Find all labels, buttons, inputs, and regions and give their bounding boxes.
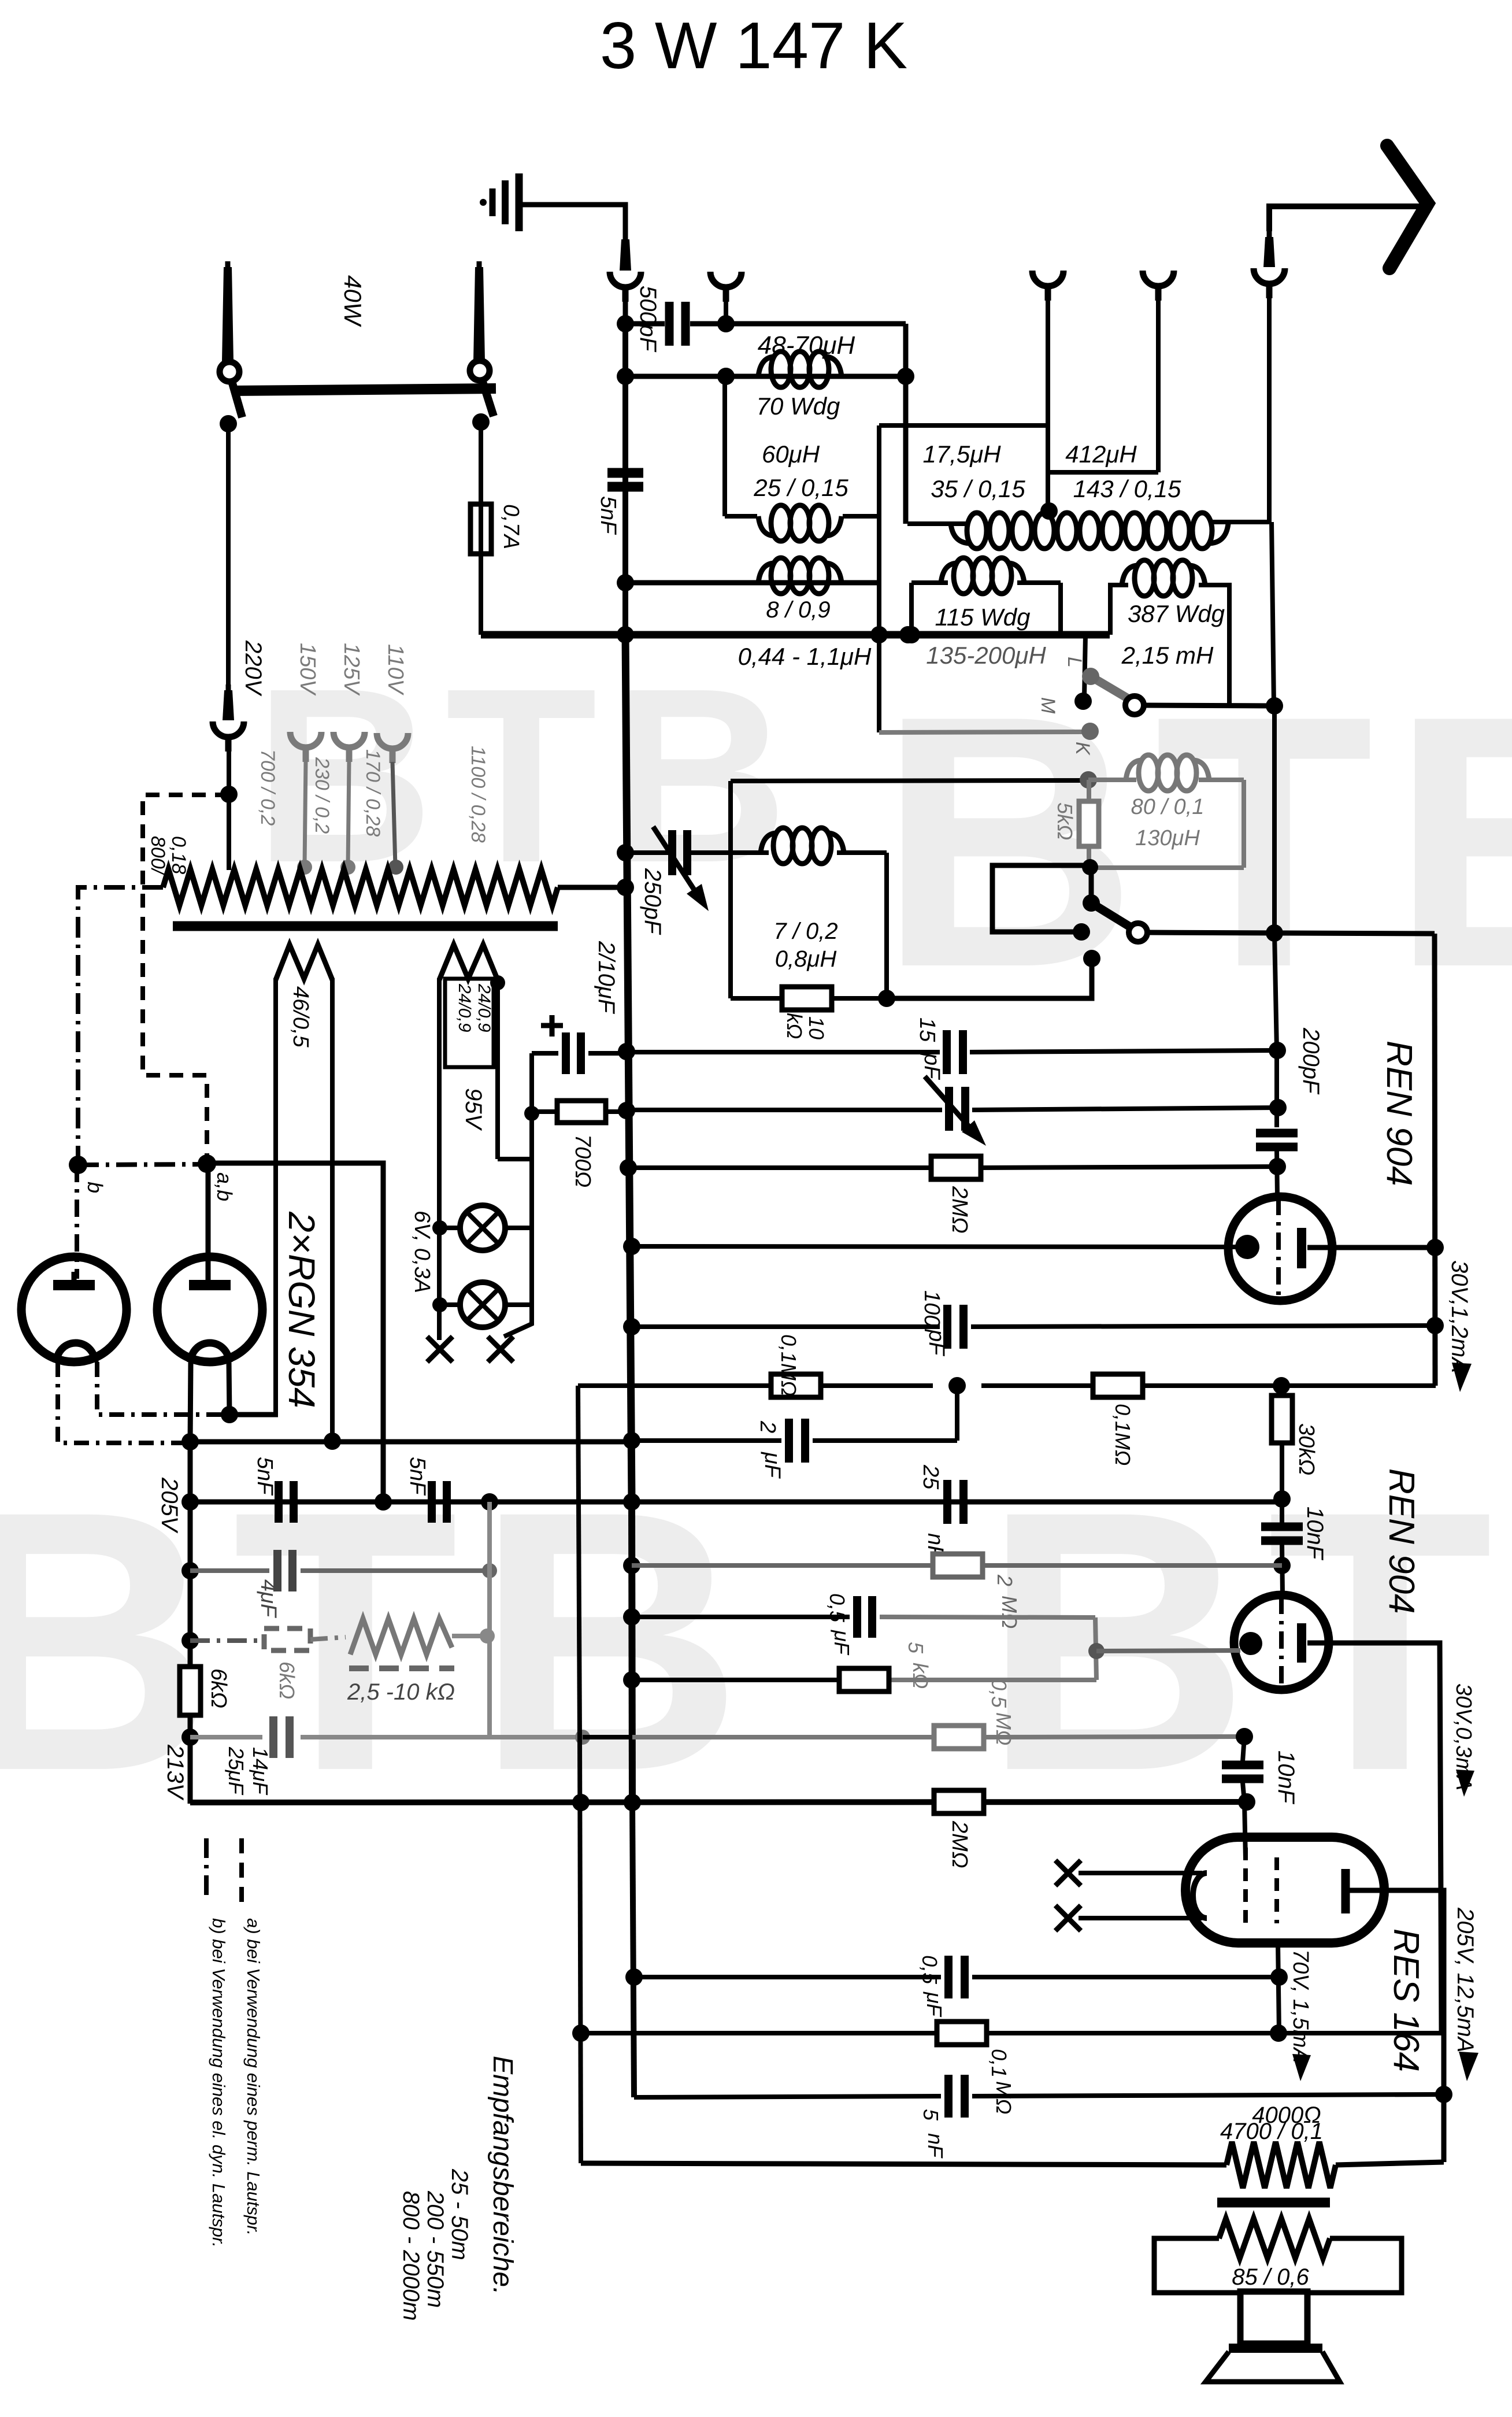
label 10nF a: [1302, 1507, 1328, 1561]
poti underline dashed: [349, 1665, 454, 1671]
lamp 2: [460, 1282, 505, 1327]
svg-text:4700 / 0,1: 4700 / 0,1: [1220, 2119, 1323, 2144]
wire gray box right side: [1242, 780, 1246, 868]
label 150V: [295, 643, 320, 696]
wire tap 125V: [348, 761, 349, 866]
resistor 30k: [1272, 1396, 1292, 1443]
svg-text:115 Wdg: 115 Wdg: [935, 604, 1031, 631]
socket fork A4: [1143, 271, 1174, 301]
node x329 gray: [181, 1728, 199, 1746]
capacitor 15pF: [947, 1030, 963, 1074]
wire gray box top right: [1199, 778, 1244, 782]
contact S3 left: [220, 415, 237, 432]
wire y3517 line: [581, 2031, 1441, 2035]
resistor 0,1M c: [937, 2022, 987, 2045]
winding 46/0,5 zigzag: [276, 945, 332, 980]
label 35/0,15: [931, 475, 1025, 502]
svg-text:5nF: 5nF: [596, 496, 620, 535]
wire A5 down: [1267, 297, 1272, 522]
svg-text:M: M: [1037, 697, 1059, 714]
svg-text:2/10μF: 2/10μF: [594, 941, 619, 1015]
label 100pF: [920, 1290, 948, 1356]
capacitor 5nF on V1: [607, 473, 643, 487]
label 0,7A: [499, 504, 523, 549]
plug pin 220V: [223, 684, 234, 720]
capacitor 100pF: [947, 1305, 963, 1349]
label 25/0,15: [753, 474, 848, 501]
node A1 y560: [617, 315, 634, 332]
label 700: [570, 1134, 595, 1187]
svg-text:40W: 40W: [339, 275, 366, 327]
switch S3 lever right: [481, 378, 494, 416]
label 10 kOhm: [783, 1013, 828, 1039]
svg-text:0,8μH: 0,8μH: [775, 946, 837, 972]
svg-text:0,5: 0,5: [918, 1955, 942, 1985]
wire y1820 line: [627, 1050, 1277, 1052]
wire M branch: [1084, 635, 1085, 697]
wire tube2 fil right leg: [229, 1362, 229, 1415]
wire S2 output: [1147, 932, 1435, 934]
wire RES cathode tap: [1278, 1943, 1279, 2033]
label 85/0,6: [1232, 2264, 1309, 2290]
dashed 800 tap path: [143, 795, 229, 1163]
capacitor 0,5uF a: [857, 1596, 872, 1638]
coil L5 115Wdg: [941, 558, 1024, 594]
resistor 2M gray: [933, 1554, 983, 1577]
node tap 110V: [388, 860, 403, 875]
label 70V,1,5mA: [1288, 1949, 1313, 2081]
label 70 Wdg: [757, 393, 840, 420]
wire lamp right rail: [529, 1053, 534, 1305]
svg-text:85 / 0,6: 85 / 0,6: [1232, 2264, 1309, 2290]
plug pin A5: [1263, 231, 1275, 267]
label 60uH: [762, 441, 820, 468]
label 25nF: [918, 1464, 947, 1560]
wire 10nF chain: [1243, 1737, 1246, 1859]
label 80/0,1: [1131, 795, 1205, 819]
wire x1005 vertical: [578, 1386, 581, 2163]
wire y1008 row: [625, 580, 879, 586]
wire gray y3005: [190, 1735, 583, 1739]
wire ground to A1: [519, 205, 625, 234]
svg-text:0,44 - 1,1μH: 0,44 - 1,1μH: [738, 643, 872, 670]
legend dash sample a: [239, 1838, 244, 1902]
svg-text:kΩ: kΩ: [909, 1663, 932, 1689]
arrow through 250pF: [653, 827, 709, 911]
label 5nF b: [405, 1457, 429, 1496]
svg-text:24/0,9: 24/0,9: [455, 983, 474, 1032]
wire x2210 upper: [1274, 706, 1277, 1127]
label K: [1072, 742, 1094, 756]
node V1 y2797: [623, 1608, 640, 1626]
ground symbol: [480, 173, 519, 231]
label 2uF: [755, 1420, 784, 1479]
label 130uH: [1135, 826, 1200, 850]
label range LW: [398, 2191, 424, 2321]
terminal X fil 1: [1055, 1860, 1081, 1886]
dash-dot b wire top: [78, 887, 163, 1163]
label L: [1063, 657, 1085, 668]
node bus V1b: [624, 1794, 641, 1811]
node bus x2157: [1238, 1793, 1255, 1811]
wire y2906 line: [632, 1678, 1096, 1682]
node bus x1005: [572, 1794, 590, 1811]
dash-dot field line: [190, 1638, 257, 1643]
label 250pF: [640, 868, 665, 935]
svg-text:MΩ: MΩ: [998, 1596, 1021, 1628]
winding rail left x477: [273, 978, 278, 1415]
node tap y3517: [1270, 2024, 1287, 2042]
wire fuse to bus: [479, 554, 483, 635]
svg-text:0,5: 0,5: [825, 1593, 849, 1623]
resistor 6k: [180, 1667, 201, 1715]
output secondary zigzag: [1219, 2219, 1330, 2258]
tube RES164: [1185, 1837, 1384, 1943]
svg-text:μF: μF: [830, 1630, 854, 1656]
svg-text:95V: 95V: [461, 1088, 486, 1131]
svg-text:2×RGN 354: 2×RGN 354: [281, 1211, 323, 1408]
wire grid line REN II: [1096, 1650, 1240, 1651]
terminal X lamp right: [488, 1337, 513, 1362]
wire 115wdg left: [909, 583, 914, 635]
switch S3 lever left: [231, 379, 242, 417]
tube V1 RGN354 left: [21, 1257, 127, 1362]
svg-text:7 / 0,2: 7 / 0,2: [773, 919, 837, 944]
node bus x1571: [899, 626, 917, 643]
svg-text:150V: 150V: [295, 643, 320, 696]
wire x329 down: [188, 1442, 193, 1804]
svg-text:25μF: 25μF: [224, 1746, 248, 1796]
svg-text:pF: pF: [924, 1329, 948, 1356]
wire 387wdg left: [1110, 585, 1128, 635]
svg-text:6kΩ: 6kΩ: [206, 1668, 231, 1708]
svg-text:K: K: [1072, 742, 1094, 756]
svg-text:10: 10: [805, 1016, 828, 1039]
svg-text:5kΩ: 5kΩ: [1053, 802, 1077, 840]
wire fil to winding: [229, 1412, 278, 1417]
svg-text:0,1MΩ: 0,1MΩ: [777, 1334, 801, 1396]
lamp 1: [460, 1205, 505, 1250]
label 800/0,18: [147, 836, 190, 876]
wire tap 150V: [305, 761, 306, 866]
wire long coil right: [1213, 522, 1269, 524]
switch S2 pivot: [1129, 923, 1147, 942]
svg-text:125V: 125V: [339, 643, 364, 696]
coil L4 17,5uH 35/0,15 and 412uH 143/0,15: [951, 513, 1228, 549]
node grid cap: [1269, 1158, 1286, 1175]
coil L6 387Wdg: [1122, 560, 1205, 596]
wire RES anode: [1349, 1890, 1444, 2094]
resistor 0,1M b: [1093, 1374, 1143, 1397]
svg-text:200pF: 200pF: [1298, 1027, 1324, 1095]
node fil right: [221, 1406, 238, 1423]
svg-text:6V, 0,3A: 6V, 0,3A: [410, 1211, 434, 1293]
switch S1 lever contact: [1082, 668, 1099, 685]
svg-text:70V, 1,5mA: 70V, 1,5mA: [1288, 1949, 1313, 2063]
svg-text:pF: pF: [920, 1053, 944, 1080]
label 0,1M c: [987, 2049, 1016, 2114]
node tap 125V: [340, 860, 355, 875]
wire 200pF to grid: [1277, 1150, 1277, 1197]
node V1 y2708: [623, 1557, 640, 1574]
svg-text:10nF: 10nF: [1302, 1507, 1328, 1561]
svg-text:2,15 mH: 2,15 mH: [1121, 642, 1214, 669]
resistor 10k: [782, 987, 832, 1010]
coil L7 80/0,1 130uH gray: [1126, 755, 1209, 791]
label 0,44-1,1uH: [738, 643, 872, 670]
svg-text:70 Wdg: 70 Wdg: [757, 393, 840, 420]
wire x2200 coil to switch: [1272, 522, 1274, 706]
wire tube2 anode lead: [206, 1164, 211, 1280]
wire y2492 row: [190, 1439, 632, 1445]
node gray 4uF: [482, 1563, 497, 1578]
node tap y3420: [1270, 1968, 1288, 1986]
label 700/0,2: [257, 749, 279, 826]
output transformer primary zigzag: [1226, 2142, 1336, 2188]
node grid node: [1088, 1643, 1105, 1659]
svg-text:MΩ: MΩ: [992, 1712, 1016, 1745]
node 700 line: [524, 1106, 539, 1121]
svg-text:17,5μH: 17,5μH: [922, 441, 1001, 468]
label 2M gray: [993, 1574, 1021, 1628]
svg-text:RES 164: RES 164: [1386, 1929, 1426, 2072]
tube REN904 I: [1228, 1197, 1332, 1301]
svg-text:250pF: 250pF: [640, 868, 665, 935]
wire y2797 line: [632, 1617, 1095, 1617]
speaker magnet box: [1240, 2292, 1307, 2344]
svg-text:REN 904: REN 904: [1379, 1041, 1419, 1186]
node bus x1524: [870, 626, 888, 643]
svg-text:25 - 50m: 25 - 50m: [447, 2168, 472, 2260]
node x329 dashdot: [181, 1632, 199, 1649]
switch S3 pivot left: [220, 362, 239, 382]
wire y2295 line: [632, 1326, 1435, 1327]
label 213V: [162, 1744, 188, 1801]
wire tube2 fil left leg: [190, 1362, 191, 1443]
node V3 y2293: [1426, 1317, 1444, 1334]
svg-text:5: 5: [919, 2109, 943, 2121]
legend text b: [209, 1918, 229, 2248]
node y651 left: [617, 368, 634, 385]
capacitor 4uF: [277, 1550, 292, 1591]
coil L3 8/0,9: [758, 558, 842, 594]
node 115wdg left: [903, 626, 920, 643]
node 220V dash: [220, 786, 238, 803]
wire gray box bottom: [1090, 865, 1244, 870]
coil L8 7/0,2 0,8uH: [761, 828, 844, 864]
wire lamp1 links: [440, 1226, 532, 1230]
svg-text:5: 5: [904, 1642, 928, 1654]
wire right side x1567: [903, 324, 909, 524]
contact K: [1081, 723, 1099, 740]
label Empfangsbereiche: [487, 2056, 518, 2295]
svg-text:80 / 0,1: 80 / 0,1: [1131, 795, 1205, 819]
node primary V1: [617, 879, 634, 896]
label 5nF V1: [596, 496, 620, 535]
svg-text:0,1MΩ: 0,1MΩ: [1111, 1404, 1135, 1465]
label 4uF: [256, 1579, 280, 1618]
wire 115wdg coil line b: [1017, 580, 1061, 585]
svg-text:205V, 12,5mA: 205V, 12,5mA: [1452, 1907, 1478, 2053]
capacitor 250pF trimmer: [672, 830, 687, 875]
svg-text:μF: μF: [922, 1992, 946, 2018]
winding rail left x760: [437, 978, 442, 1340]
node y651 right: [897, 368, 914, 385]
switch S1 pivot: [1125, 696, 1144, 715]
wire V3 vertical: [1435, 934, 1435, 1386]
svg-text:REN 904: REN 904: [1381, 1468, 1421, 1614]
label 24/0,9 b: [475, 983, 494, 1032]
label 205V,12,5mA: [1452, 1907, 1478, 2081]
wire trimmer to box: [689, 850, 731, 855]
wire coil line 7/02: [731, 850, 887, 855]
label 2/10uF: [594, 941, 619, 1015]
wire 700 line: [532, 1109, 627, 1114]
svg-text:8 / 0,9: 8 / 0,9: [766, 597, 830, 623]
svg-text:60μH: 60μH: [762, 441, 820, 468]
node V1 y3420: [625, 1968, 643, 1986]
watermark BTB row 1b: [879, 642, 1512, 1042]
socket fork 150V: [290, 732, 321, 762]
wire ab right: [207, 1163, 383, 1502]
wire L2 right stub: [843, 514, 879, 519]
label 30V,0,3mA: [1451, 1683, 1476, 1797]
label range KW: [447, 2168, 472, 2260]
wire 115wdg right: [1058, 583, 1063, 635]
label REN 904 II: [1381, 1468, 1421, 1614]
svg-text:Empfangsbereiche.: Empfangsbereiche.: [487, 2056, 518, 2295]
legend dashdot sample b: [204, 1838, 209, 1902]
label 30k: [1294, 1423, 1318, 1475]
speaker cone: [1206, 2352, 1340, 2382]
wire K line: [879, 732, 1082, 732]
label 2,15 mH: [1121, 642, 1214, 669]
svg-text:25 / 0,15: 25 / 0,15: [753, 474, 848, 501]
capacitor 2uF: [789, 1419, 805, 1463]
switch S2 lever: [1091, 903, 1132, 928]
label 48-70uH: [758, 331, 855, 360]
svg-text:412μH: 412μH: [1065, 441, 1137, 468]
node V1 y2156: [623, 1238, 640, 1255]
label 4000 Ohm: [1252, 2103, 1321, 2128]
svg-text:10nF: 10nF: [1273, 1750, 1299, 1805]
wire x2218 chain: [1281, 1386, 1283, 1596]
socket fork 110V: [377, 733, 408, 763]
wire top row y560: [625, 321, 665, 327]
node V1 y2020: [620, 1159, 637, 1176]
wire 205V rail: [190, 1500, 1282, 1505]
node A2-top: [717, 315, 735, 332]
svg-text:a,b: a,b: [213, 1172, 236, 1201]
svg-text:170 / 0,28: 170 / 0,28: [362, 749, 384, 836]
node bus V1: [617, 626, 634, 643]
node coil tap A3: [1040, 502, 1058, 520]
svg-text:0,5: 0,5: [987, 1679, 1011, 1708]
node x1005 y3517: [572, 2024, 590, 2042]
node gray x1005: [575, 1730, 590, 1745]
socket fork A3: [1032, 271, 1063, 301]
label 230/0,2: [311, 757, 333, 834]
label 143/0,15: [1073, 475, 1181, 502]
label 170/0,28: [362, 749, 384, 836]
terminal X lamp left: [427, 1337, 453, 1362]
capacitor 500pF: [669, 302, 685, 346]
label 125V: [339, 643, 364, 696]
svg-text:b: b: [83, 1182, 107, 1193]
node V1 y1926: [618, 1102, 635, 1119]
node gray poti: [480, 1628, 495, 1644]
wire 220V tap: [227, 750, 231, 870]
socket fork 220V: [213, 721, 244, 752]
label 0,1M a: [777, 1334, 801, 1396]
svg-text:μF: μF: [760, 1452, 784, 1479]
wire grid node vertical: [1095, 1617, 1096, 1680]
node x329 4uF: [181, 1562, 199, 1579]
wire long coil left: [907, 521, 966, 526]
wire gray x847: [487, 1502, 492, 1737]
label 10nF b: [1273, 1750, 1299, 1805]
label 25-10k: [347, 1679, 455, 1705]
node gray box bottom junction: [1082, 859, 1098, 875]
label 5nF c: [919, 2109, 947, 2159]
main bus y1098: [481, 631, 1110, 639]
wire 7/02 box left: [728, 853, 733, 998]
capacitor 5nF a: [279, 1481, 294, 1523]
label M: [1037, 697, 1059, 714]
label 6kOhm: [206, 1668, 231, 1708]
svg-text:143 / 0,15: 143 / 0,15: [1073, 475, 1181, 502]
label 8/0,9: [766, 597, 830, 623]
wire A4 down: [1156, 299, 1161, 472]
node x575 y2492: [324, 1433, 341, 1450]
node V1 y1822: [618, 1043, 635, 1060]
label 0,5uF b: [918, 1955, 946, 2018]
svg-text:1100 / 0,28: 1100 / 0,28: [467, 746, 489, 843]
label 2M b: [947, 1820, 972, 1868]
tube V1 filament legs dashdot: [58, 1362, 225, 1443]
label 6V,0,3A: [410, 1211, 434, 1293]
wire y651 row: [625, 374, 907, 379]
node y3005 x2153: [1236, 1728, 1253, 1745]
node 10k line: [878, 990, 895, 1007]
wire y2708 line: [632, 1563, 1282, 1568]
svg-text:2: 2: [755, 1420, 780, 1433]
node V1 y1475: [617, 844, 634, 861]
capacitor 10nF a: [1261, 1527, 1303, 1541]
wire bottom rail: [581, 2163, 1226, 2165]
contact S2 lower: [1083, 950, 1100, 967]
label 2xRGN 354: [281, 1211, 323, 1408]
label 205V: [157, 1477, 182, 1534]
mains pin right: [473, 261, 485, 361]
output transformer core: [1217, 2198, 1330, 2208]
resistor 0,1M a: [771, 1374, 821, 1397]
svg-text:213V: 213V: [162, 1744, 188, 1801]
svg-text:15: 15: [915, 1017, 939, 1042]
speaker bar: [1229, 2344, 1322, 2353]
wire cap to corner: [690, 321, 906, 327]
plus sign: [541, 1015, 563, 1037]
wire L2 left stub: [725, 514, 757, 519]
node y651 A2: [717, 368, 735, 385]
svg-text:130μH: 130μH: [1135, 826, 1200, 850]
label 15pF: [915, 1017, 944, 1080]
winding rail right x861: [495, 978, 500, 1159]
legend text a: [243, 1918, 264, 2235]
svg-text:100: 100: [920, 1290, 944, 1327]
wire gray line y1349: [731, 780, 1085, 781]
svg-text:2MΩ: 2MΩ: [947, 1820, 972, 1868]
